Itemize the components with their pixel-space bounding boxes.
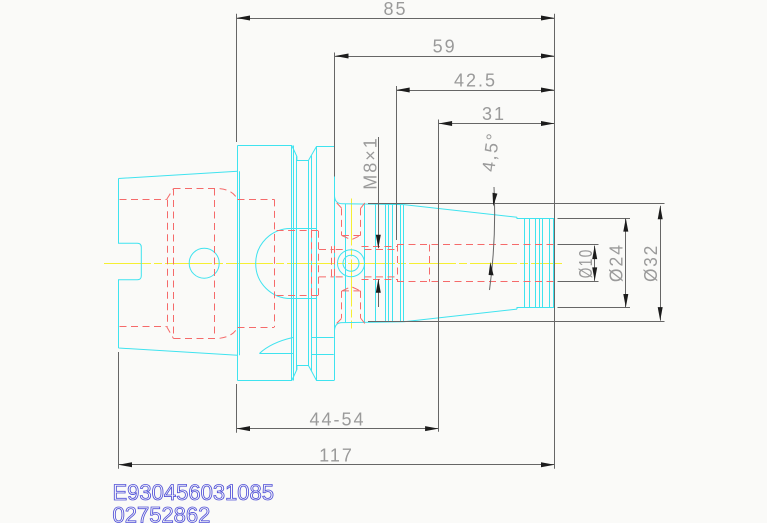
nut groove ring 2: [364, 204, 366, 323]
dimension 44-54: [237, 409, 439, 431]
flange rim right: [316, 147, 318, 381]
flange top edge with V-groove: [238, 146, 335, 161]
coolant dome arc: [256, 229, 317, 299]
dimension dia24: [558, 218, 631, 307]
dimension 59: [335, 36, 555, 58]
svg-text:M8×1: M8×1: [360, 136, 380, 190]
pocket upper chamfer right: [361, 203, 365, 209]
bore drill chamfer wall: [438, 245, 440, 282]
flange bottom edge with V-groove: [238, 366, 335, 381]
side hole inner circle: [343, 255, 359, 271]
thread countersink wall b: [334, 246, 336, 280]
nose ring 3: [535, 218, 537, 307]
pocket lower top: [342, 287, 361, 291]
bore relief wall: [429, 245, 431, 282]
nut groove ring 4: [385, 204, 387, 322]
extension line thread end: [396, 86, 398, 240]
nose bore top: [397, 244, 554, 246]
hidden taper bore top: [120, 199, 167, 201]
crescent groove cut: [259, 338, 293, 354]
pocket upper wall right: [360, 208, 362, 235]
nose ring 5: [542, 218, 544, 307]
centerline horizontal axis: [104, 263, 562, 265]
centerline vertical through side hole: [351, 199, 353, 329]
cavity mid wall: [214, 189, 216, 339]
groove wall left: [296, 157, 298, 370]
thread major bottom: [319, 276, 397, 278]
cavity bottom line: [174, 328, 238, 339]
pocket upper chamfer left: [337, 203, 342, 209]
side hole outer circle: [338, 250, 365, 277]
thread crest top: [362, 246, 398, 248]
pocket lower chamfer left: [337, 318, 342, 323]
cone top edge: [404, 205, 517, 218]
nut bottom edge: [342, 321, 404, 324]
dome hidden wall a: [311, 231, 313, 296]
cavity step bottom: [238, 327, 275, 329]
dimension 4.5deg leader: [478, 130, 503, 290]
svg-text:44-54: 44-54: [309, 409, 365, 429]
nut top edge: [342, 203, 404, 206]
pocket upper wall left: [341, 208, 343, 235]
cone base ring 1: [388, 204, 390, 322]
cavity top line: [174, 189, 238, 200]
nose front face: [553, 218, 555, 307]
svg-text:Ø24: Ø24: [607, 243, 627, 282]
dimension 85: [237, 0, 555, 20]
svg-text:Ø32: Ø32: [641, 244, 661, 282]
flange rim line: [311, 156, 313, 371]
nose ring 4: [539, 218, 541, 307]
cavity step top: [238, 199, 275, 201]
cone bottom edge: [404, 309, 517, 322]
nose top edge: [517, 217, 554, 218]
dimension 31: [439, 104, 555, 126]
hidden taper bore bottom: [120, 326, 167, 328]
pocket lower chamfer right: [361, 318, 365, 323]
thread major top: [319, 249, 397, 251]
extension line nose face: [554, 14, 556, 469]
thread countersink wall a: [331, 246, 333, 279]
nose ring 2: [529, 218, 531, 307]
svg-text:31: 31: [482, 104, 506, 124]
thread crest bottom: [362, 279, 398, 281]
cone base ring 2: [392, 204, 394, 322]
nut groove ring 1: [345, 204, 347, 323]
pocket lower wall left: [341, 291, 343, 318]
cavity left wall: [173, 189, 175, 339]
extension line shank face: [118, 352, 120, 469]
pocket upper bottom: [342, 236, 361, 240]
bore step wall: [397, 245, 399, 282]
shank outline HSK taper body: [119, 171, 238, 355]
nose chamfer ring: [549, 218, 551, 307]
svg-text:85: 85: [383, 0, 407, 19]
flange face second line: [239, 171, 241, 355]
svg-text:59: 59: [433, 36, 457, 56]
bore end wall: [167, 200, 169, 327]
dome hidden bottom: [277, 295, 319, 297]
cone base ring 5: [403, 205, 405, 322]
cavity right wall: [274, 199, 276, 327]
dome hidden top: [277, 230, 319, 232]
svg-text:Ø10: Ø10: [576, 248, 596, 278]
dimension dia32: [368, 204, 665, 322]
body right face with fillets: [335, 147, 343, 381]
extension line bore end: [438, 120, 440, 432]
nose bore bottom: [397, 281, 554, 283]
dome hidden wall b: [318, 231, 320, 296]
groove section line b: [311, 354, 334, 356]
cone base ring 4: [400, 205, 402, 322]
svg-text:117: 117: [319, 445, 354, 465]
nose bottom edge: [517, 308, 554, 310]
groove section line a: [311, 337, 334, 339]
extension line flange face: [236, 14, 238, 433]
bore chamfer top: [167, 189, 174, 200]
svg-text:42.5: 42.5: [454, 70, 497, 90]
pocket lower wall right: [360, 291, 362, 318]
flange vertical line b: [293, 146, 295, 381]
extension line nut face: [334, 53, 336, 177]
dimension M8x1 leader: [360, 136, 381, 307]
dimension dia10: [558, 245, 599, 282]
dimension 42.5: [396, 70, 554, 92]
dimension 117: [119, 445, 555, 467]
nut groove ring 3: [375, 204, 377, 323]
svg-text:02752862: 02752862: [113, 502, 211, 523]
groove wall right: [308, 161, 310, 366]
flange left face: [237, 146, 239, 381]
nose ring 1: [524, 218, 526, 307]
flange vertical line a: [291, 146, 293, 381]
bore chamfer bottom: [167, 327, 174, 339]
shank drive hole circle: [189, 248, 219, 278]
